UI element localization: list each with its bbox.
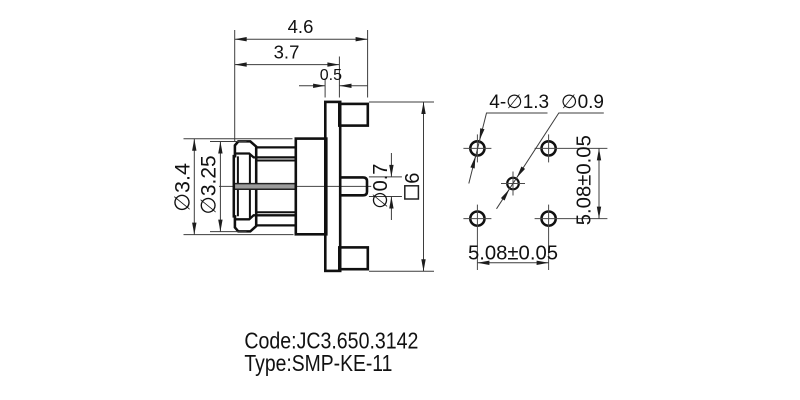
- connector front cap lower outline: [235, 190, 256, 232]
- svg-text:4-∅1.3: 4-∅1.3: [489, 92, 549, 113]
- neck bottom second line: [256, 211, 296, 213]
- center pin: [340, 177, 367, 195]
- svg-text:∅3.25: ∅3.25: [197, 155, 220, 214]
- bottom mounting tab: [339, 247, 368, 269]
- svg-text:0.5: 0.5: [320, 67, 342, 84]
- footprint hole top-left: [470, 141, 484, 155]
- dimension square 6: [369, 102, 434, 271]
- footprint hole top-right: [542, 141, 556, 155]
- lower shoulder line: [256, 224, 296, 226]
- dimension dia 3.25: [210, 142, 247, 232]
- leader line dia0.9: [497, 113, 604, 209]
- svg-text:Type:SMP-KE-11: Type:SMP-KE-11: [244, 350, 392, 376]
- finger line B: [249, 154, 251, 219]
- svg-text:5.08±0.05: 5.08±0.05: [468, 242, 558, 264]
- svg-text:∅0.9: ∅0.9: [561, 92, 604, 113]
- front face of shroud: [234, 156, 237, 216]
- neck top second line: [256, 160, 296, 162]
- slot gray band: [234, 184, 296, 188]
- footprint dimension 5.08 right: [598, 148, 600, 218]
- svg-text:6: 6: [402, 173, 424, 184]
- svg-text:∅0.7: ∅0.7: [370, 164, 392, 209]
- finger line A: [237, 156, 239, 216]
- cap lower band line to neck bottom: [235, 215, 296, 219]
- dimension dia 3.4: [184, 139, 294, 235]
- crosshairs: [463, 134, 607, 270]
- leader line 4-dia1.3: [469, 113, 548, 184]
- center axis line: [219, 185, 371, 187]
- cap upper band line to neck top: [235, 154, 296, 158]
- footprint hole bottom-left: [470, 212, 484, 226]
- dimension dia 0.7: [369, 153, 402, 220]
- dimension 4.6: [235, 30, 368, 141]
- slot top edge: [234, 183, 296, 185]
- footprint center hole: [507, 178, 519, 190]
- rear body: [296, 139, 327, 235]
- svg-text:4.6: 4.6: [288, 16, 314, 37]
- top mounting tab: [339, 104, 368, 126]
- footprint hole bottom-right: [542, 212, 556, 226]
- footprint dimension 5.08 bottom: [477, 262, 548, 264]
- connector front cap upper outline: [235, 141, 256, 183]
- svg-text:∅3.4: ∅3.4: [171, 163, 195, 212]
- square symbol of square-6 label: [405, 186, 419, 199]
- svg-text:5.08±0.05: 5.08±0.05: [574, 135, 596, 225]
- slot bottom edge: [234, 188, 296, 190]
- dimension 3.7: [235, 57, 340, 98]
- flange: [325, 102, 340, 271]
- svg-text:3.7: 3.7: [274, 42, 300, 63]
- upper shoulder line: [256, 146, 296, 148]
- dimension 0.5: [299, 79, 368, 98]
